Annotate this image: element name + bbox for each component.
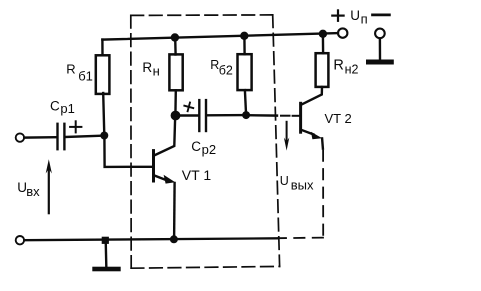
svg-text:р2: р2 — [202, 142, 216, 157]
node: Rб2 top on rail — [240, 32, 248, 40]
wire: collector node to Cp2 — [176, 114, 199, 116]
wire: rail to Rн2 — [322, 34, 325, 54]
plus sign of Uп — [332, 10, 343, 20]
wire: Rб1 bottom to input node — [103, 93, 104, 135]
svg-text:U: U — [350, 8, 360, 23]
resistor Rб1 — [96, 55, 110, 94]
wire: VT1 emitter down to ground rail — [173, 183, 176, 239]
svg-text:R: R — [142, 60, 152, 75]
label Uвх — [17, 180, 40, 199]
resistor Rн2 — [316, 53, 329, 87]
svg-text:б2: б2 — [219, 64, 233, 78]
resistor Rн — [169, 54, 182, 90]
wire: dashed continuation to VT2 base — [281, 115, 299, 117]
svg-text:VT 2: VT 2 — [325, 111, 352, 126]
node: base node of VT1 (junction dot) — [100, 132, 108, 140]
wire: minus terminal to ground — [379, 38, 382, 59]
supply minus terminal — [375, 29, 385, 39]
polarity + of Cp2 — [183, 101, 194, 112]
svg-text:н: н — [153, 63, 160, 78]
capacitor Cp1 — [58, 124, 65, 149]
transistor VT2 emitter with arrow — [301, 130, 314, 135]
label Rн — [142, 60, 159, 78]
svg-text:C: C — [191, 139, 201, 154]
wire: Cp2 right to Rб2 bottom node — [207, 114, 246, 117]
wire: node toward VT2 base (solid part) — [246, 114, 277, 117]
transistor VT2 collector — [301, 87, 322, 105]
supply terminal (+Uп) — [338, 28, 347, 37]
wire: top supply rail — [102, 33, 338, 40]
svg-text:C: C — [50, 98, 60, 113]
ground (supply) — [366, 60, 394, 65]
ground (signal) — [92, 267, 120, 272]
label Rн2 — [333, 58, 358, 77]
svg-text:р1: р1 — [60, 101, 74, 116]
svg-text:R: R — [66, 61, 75, 76]
dashed box (first stage boundary) — [131, 15, 280, 268]
wire: rail to Rн — [174, 38, 177, 55]
transistor VT1 collector — [154, 116, 175, 156]
transistor VT2 base bar — [299, 103, 302, 132]
svg-text:R: R — [333, 58, 343, 74]
wire: Rб2 bottom to node — [245, 90, 246, 115]
label Rб2 — [210, 58, 233, 78]
wire: ground stem — [104, 240, 107, 266]
bottom rail — [24, 238, 277, 240]
wire: VT2 emitter short solid drop — [321, 138, 324, 148]
svg-text:н2: н2 — [345, 62, 359, 76]
transistor VT1 base bar — [152, 151, 155, 181]
wire: dashed output connection down — [322, 151, 324, 237]
wire: dashed output connection to bottom rail — [279, 237, 324, 240]
wire: input terminal to Cp1 — [24, 136, 56, 139]
input terminal (upper) — [16, 133, 24, 141]
wire: Rб1 branch from rail — [101, 40, 103, 56]
wire: rail to Rб2 — [243, 36, 246, 55]
resistor Rб2 — [238, 54, 252, 90]
label Uвых — [280, 174, 314, 193]
label Cp1 — [50, 98, 75, 116]
label Uп — [350, 8, 367, 27]
node: VT1 emitter on bottom rail — [170, 235, 178, 243]
svg-text:п: п — [361, 11, 368, 26]
svg-text:вых: вых — [291, 178, 314, 193]
wire: base node down and right to VT1 base — [104, 136, 152, 167]
wire: Rн bottom to collector node — [174, 90, 177, 115]
wire: Cp1 to base node — [66, 136, 105, 137]
polarity + of Cp1 — [70, 121, 81, 132]
svg-text:U: U — [280, 174, 289, 188]
node: ground junction on bottom rail — [102, 237, 109, 244]
label Rб1 — [66, 61, 93, 83]
svg-text:вх: вх — [26, 184, 40, 199]
arrow: Uвх direction — [48, 170, 50, 213]
capacitor Cp2 — [199, 100, 206, 131]
node: VT1 collector / Cp2 left (junction dot) — [171, 111, 181, 121]
node: Rб2 bottom / VT2 base node (junction dot) — [242, 111, 250, 119]
input terminal (lower) — [16, 236, 24, 244]
arrow: Uвых direction — [286, 122, 288, 141]
svg-text:VT 1: VT 1 — [182, 167, 212, 183]
transistor VT1 emitter with arrow — [154, 175, 167, 180]
node: Rн2 top on rail — [319, 30, 327, 38]
svg-text:б1: б1 — [78, 68, 93, 83]
minus sign of Uп — [373, 14, 390, 17]
label Cp2 — [191, 139, 216, 157]
node: Rн top on rail — [171, 33, 179, 41]
